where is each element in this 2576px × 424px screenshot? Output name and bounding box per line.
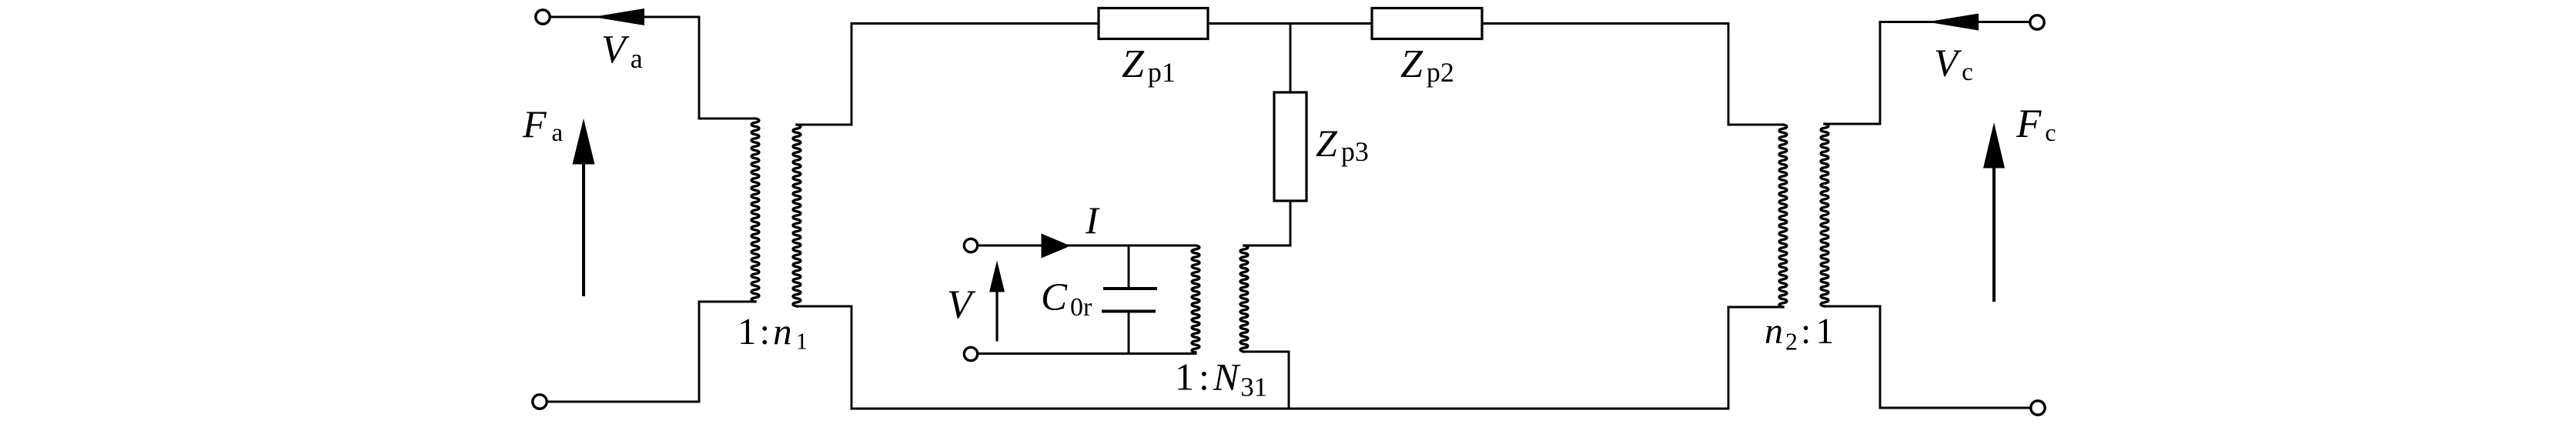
terminal V_a plus bbox=[536, 10, 550, 24]
arrow V_a current direction (points left) bbox=[593, 8, 644, 25]
svg-text:Fa: Fa bbox=[522, 102, 564, 147]
svg-text:n2:1: n2:1 bbox=[1765, 311, 1834, 356]
arrow I current direction (points right) bbox=[1042, 234, 1071, 259]
wire left lower vertical bbox=[698, 302, 701, 402]
wire secondary top vertical to bus bbox=[851, 24, 853, 125]
wire Zp3 bottom lead bbox=[1290, 201, 1292, 245]
wire top bus right segment bbox=[1482, 22, 1728, 25]
terminal V minus bbox=[964, 347, 977, 360]
wire to primary coil top bbox=[699, 118, 755, 120]
wire n2 winding bottom bbox=[1728, 306, 1783, 309]
wire left corner vertical bbox=[698, 17, 701, 119]
svg-text:1:N31: 1:N31 bbox=[1175, 356, 1267, 402]
wire Zp3 lead to N31 secondary top bbox=[1244, 245, 1290, 247]
wire right bottom vertical bbox=[1879, 306, 1882, 408]
svg-text:I: I bbox=[1085, 199, 1100, 242]
wire top-right corner to terminal bbox=[1880, 21, 2030, 23]
transformer T1 primary winding (left coil) bbox=[751, 119, 759, 302]
svg-text:Vc: Vc bbox=[1934, 42, 1973, 86]
svg-text:C0r: C0r bbox=[1041, 276, 1092, 322]
wire primary coil bottom bbox=[699, 301, 755, 303]
transformer T1 secondary winding (right coil) bbox=[793, 125, 801, 306]
resistor box Z_p2 bbox=[1372, 8, 1482, 39]
arrow F_c (up) bbox=[1992, 168, 1996, 302]
svg-text:Va: Va bbox=[601, 28, 643, 74]
wire N31 secondary vertical to bottom bus bbox=[1288, 352, 1290, 409]
terminal V plus bbox=[964, 239, 977, 252]
wire top bus left segment bbox=[851, 22, 1099, 25]
wire bottom-left terminal to corner bbox=[547, 401, 699, 403]
transformer N31 secondary winding bbox=[1240, 245, 1248, 352]
svg-text:V: V bbox=[947, 282, 976, 327]
wire N31 secondary bottom bbox=[1244, 351, 1289, 353]
wire source top lead bbox=[978, 245, 1196, 247]
resistor box Z_p3 bbox=[1274, 92, 1306, 201]
terminal V_c minus bbox=[2031, 401, 2045, 415]
capacitor C0r bottom lead bbox=[1128, 312, 1130, 354]
arrow F_a (up) bbox=[582, 162, 585, 296]
wire top bus middle segment bbox=[1208, 22, 1372, 25]
svg-text:Fc: Fc bbox=[2016, 102, 2056, 146]
wire secondary coil bottom bbox=[797, 305, 851, 308]
transformer T2 secondary winding (right coil) bbox=[1821, 124, 1828, 306]
wire right top vertical bbox=[1879, 22, 1882, 125]
svg-text:Zp3: Zp3 bbox=[1316, 122, 1369, 167]
wire bottom-right corner to terminal bbox=[1880, 407, 2031, 409]
wire n2 secondary bottom bbox=[1825, 305, 1880, 308]
wire right transformer left vertical top bbox=[1728, 24, 1730, 125]
wire n2 secondary top bbox=[1825, 123, 1880, 125]
wire secondary coil top to right vertical bbox=[797, 124, 851, 126]
capacitor C0r bottom plate bbox=[1102, 310, 1156, 313]
transformer N31 primary winding bbox=[1192, 245, 1199, 352]
wire right transformer left vertical bottom bbox=[1728, 307, 1730, 409]
svg-text:1:n1: 1:n1 bbox=[738, 310, 808, 355]
svg-text:Zp1: Zp1 bbox=[1122, 42, 1176, 88]
transformer T2 primary winding (left coil) bbox=[1779, 125, 1787, 307]
arrow V_c current direction (points left) bbox=[1927, 14, 1979, 31]
arrow V reference (up) bbox=[995, 286, 998, 342]
node junction Zp3 branch on top bus bbox=[1290, 24, 1292, 93]
wire to n2 winding top bbox=[1728, 124, 1783, 126]
resistor box Z_p1 bbox=[1099, 8, 1208, 39]
wire source bottom lead bbox=[978, 352, 1196, 355]
wire secondary bottom vertical to bus bbox=[851, 306, 853, 409]
wire bottom bus bbox=[851, 408, 1728, 410]
terminal V_c plus bbox=[2030, 15, 2044, 29]
svg-text:Zp2: Zp2 bbox=[1400, 42, 1454, 88]
terminal V_a minus bbox=[533, 395, 547, 409]
capacitor C0r top lead bbox=[1128, 245, 1130, 289]
capacitor C0r top plate bbox=[1103, 287, 1157, 290]
wire top-left terminal to corner bbox=[550, 16, 699, 18]
